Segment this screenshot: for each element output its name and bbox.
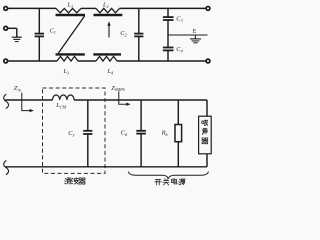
svg-text:E: E: [193, 28, 197, 35]
resistor Rb bottom lead: [177, 142, 179, 167]
wire bottom rail left: [8, 60, 57, 62]
source break mark bottom: [4, 160, 9, 174]
wire C3 to node: [167, 21, 169, 35]
ground symbol E: [194, 35, 196, 39]
inductor LCM: [53, 95, 75, 100]
wire top rail right: [120, 7, 207, 9]
capacitor C1 plates: [35, 33, 44, 35]
label SMPS (Chinese): [155, 179, 160, 181]
Zin arrow: [22, 93, 32, 111]
wire top rail mid: [81, 7, 96, 9]
inductor L1 core bar: [56, 14, 86, 16]
capacitor C4 bottom lead: [167, 51, 169, 61]
capacitor C2 bottom lead: [138, 37, 140, 61]
absorber bottom lead: [206, 154, 208, 167]
wire node to C4: [167, 35, 169, 47]
filter dashed box: [43, 88, 106, 173]
absorber top lead: [206, 100, 208, 116]
capacitor C2 plates: [134, 33, 143, 35]
label filter (Chinese): [64, 177, 67, 180]
inductor L3 core bar: [56, 53, 85, 55]
capacitor Cy bottom lead: [87, 135, 89, 167]
wire terminal T2 to ground: [8, 27, 17, 29]
inductor L4 winding: [96, 56, 117, 61]
inductor L4 core bar: [93, 53, 121, 55]
capacitor Cy plates: [83, 130, 92, 132]
capacitor C1 top lead: [38, 8, 40, 33]
wire bottom rail right: [117, 60, 206, 62]
wire top rail left: [8, 7, 56, 9]
inductor L2 winding: [96, 8, 120, 12]
terminal T2 (earth in): [4, 26, 8, 30]
source break mark top: [4, 94, 9, 108]
ground symbol left: [16, 28, 18, 37]
wire bottom rail mid: [78, 60, 96, 62]
capacitor Cd bottom lead: [140, 134, 142, 167]
inductor L3 winding: [57, 56, 78, 61]
resistor Rb top lead: [177, 100, 179, 125]
ZSMPS arrow: [119, 91, 128, 104]
capacitor C3 plates: [163, 16, 174, 18]
capacitor Cd top lead: [140, 100, 142, 130]
absorber box: [199, 116, 212, 154]
wire SMPS input: [5, 99, 52, 101]
capacitor Cy top lead: [87, 100, 89, 130]
capacitor Cd plates: [136, 130, 146, 132]
terminal T3 (line in N): [4, 59, 8, 63]
terminal T1 (line in L): [4, 6, 8, 10]
capacitor C3 top lead: [167, 8, 169, 16]
noise current arrow: [108, 25, 110, 38]
capacitor C1 bottom lead: [38, 37, 40, 61]
inductor L1 winding: [56, 8, 81, 12]
terminal T4 (line out L): [206, 6, 210, 10]
capacitor C4 plates: [163, 47, 174, 49]
capacitor C2 top lead: [138, 8, 140, 33]
resistor Rb body: [175, 125, 182, 142]
wire LCM to right: [74, 99, 207, 101]
coupling diagonal (choke Z): [58, 16, 84, 53]
inductor L2 core bar: [94, 14, 123, 16]
wire ground rail: [5, 166, 207, 168]
absorber text: [202, 120, 204, 122]
node E wire: [168, 34, 208, 36]
terminal T5 (line out N): [206, 59, 210, 63]
brace SMPS: [128, 172, 208, 179]
